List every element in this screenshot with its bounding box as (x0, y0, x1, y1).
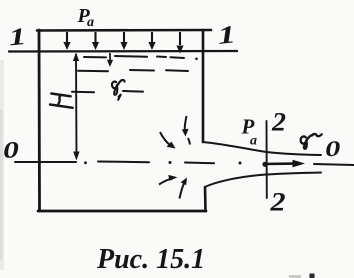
svg-text:1: 1 (7, 23, 27, 51)
svg-text:a: a (250, 134, 257, 149)
svg-text:2: 2 (269, 188, 285, 217)
svg-text:1: 1 (216, 20, 237, 50)
svg-text:0: 0 (2, 137, 20, 163)
svg-text:Рис. 15.1: Рис. 15.1 (96, 244, 205, 275)
svg-text:2: 2 (271, 108, 286, 137)
svg-text:0: 0 (324, 136, 341, 162)
svg-text:a: a (87, 15, 94, 30)
